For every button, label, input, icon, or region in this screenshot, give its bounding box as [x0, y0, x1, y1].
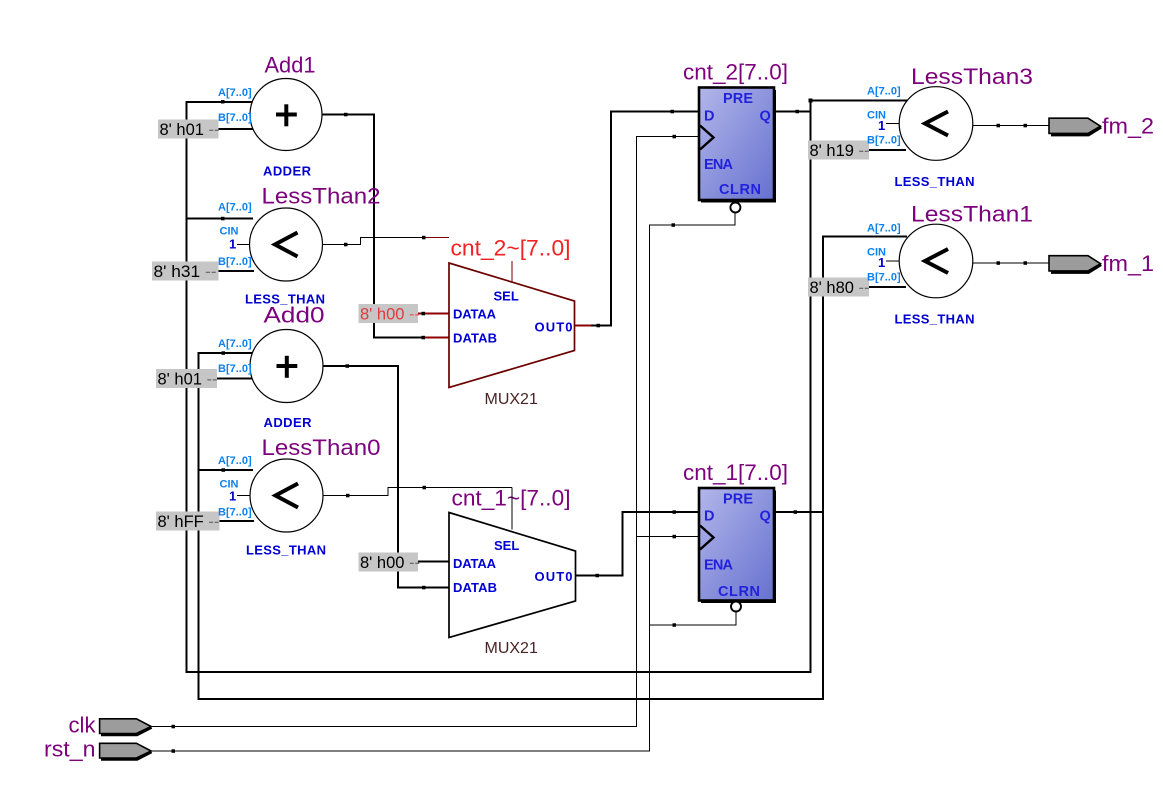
junction tick cnt_1 Q: [794, 510, 798, 514]
wire LessThan2 output maroon segment entering SEL label: [425, 237, 452, 239]
port label B[7..0] of Add1: [218, 112, 252, 124]
svg-text:DATAA: DATAA: [453, 307, 497, 322]
svg-text:LESS_THAN: LESS_THAN: [895, 174, 975, 189]
wire net cnt_1 Q feedback loop to Add0.A and LessThan1.A: [199, 237, 908, 700]
wire clk net to both flipflop clock pins: [151, 137, 699, 727]
junction tick DATAB1 stub: [422, 586, 426, 590]
wire Add0 B input from constant 8'h01: [217, 378, 254, 380]
svg-text:1: 1: [878, 255, 885, 270]
junction tick clk wire: [172, 725, 176, 729]
svg-text:D: D: [704, 508, 714, 524]
junction tick OUT0 cnt_2~: [597, 324, 601, 328]
type label MUX21 of mux cnt_1~: [485, 640, 538, 657]
comparator LessThan0 circle: [250, 459, 323, 532]
input pin clk: [100, 719, 152, 735]
mux cnt_2~ trapezoid: [449, 263, 575, 388]
wire LessThan2 A input branch: [187, 218, 254, 220]
wire LessThan0 output to MUX cnt_1~ SEL: [323, 488, 512, 496]
svg-text:ADDER: ADDER: [264, 415, 313, 430]
wire LessThan1 CIN constant 1 stub: [886, 260, 901, 262]
svg-text:LessThan2: LessThan2: [262, 184, 381, 209]
port label B[7..0] of LessThan0: [218, 507, 252, 519]
junction tick fm_1 wire b: [1024, 261, 1028, 265]
svg-text:8' h19 --: 8' h19 --: [810, 142, 870, 160]
junction tick cnt_2 clock: [673, 135, 677, 139]
junction tick cnt_1 clock: [673, 535, 677, 539]
junction tick SEL2 wire: [422, 236, 426, 240]
junction tick cnt_2 D: [671, 110, 675, 114]
svg-text:ADDER: ADDER: [263, 164, 312, 179]
instance title Add0: [264, 303, 325, 328]
junction tick LessThan0 out: [346, 494, 350, 498]
flipflop cnt_1 CLRN bubble: [731, 602, 741, 612]
port label CIN of LessThan2: [220, 226, 239, 238]
wire Add1 output to MUX cnt_2~ DATAB: [322, 115, 426, 338]
flipflop cnt_2 CLRN bubble: [730, 203, 740, 213]
pin name rst_n: [44, 737, 96, 762]
port label DATAB of mux cnt_2~: [453, 331, 497, 346]
instance title LessThan0: [262, 435, 381, 460]
constant label 8'h00 for MUX cnt_1~ DATAA: [359, 553, 421, 573]
junction tick fm_2 wire a: [997, 124, 1001, 128]
svg-text:cnt_2[7..0]: cnt_2[7..0]: [683, 60, 788, 85]
port label A[7..0] of Add1: [218, 87, 252, 99]
junction tick Add1 A: [221, 100, 225, 104]
svg-text:LessThan1: LessThan1: [911, 202, 1033, 227]
port label LESS_THAN of LessThan2: [245, 292, 325, 307]
svg-text:B[7..0]: B[7..0]: [867, 272, 901, 284]
wire LessThan2 B input from constant 8'h31: [218, 270, 254, 272]
output pin fm_2: [1049, 118, 1101, 135]
svg-text:ENA: ENA: [704, 557, 734, 573]
junction tick cnt_1 D: [673, 510, 677, 514]
svg-text:clk: clk: [69, 713, 97, 738]
wire LessThan0 B input from constant 8'hFF: [219, 520, 254, 522]
flipflop cnt_1 body: [699, 488, 776, 603]
junction tick LessThan2 out: [344, 243, 348, 247]
comparator LessThan3 circle: [899, 87, 973, 161]
comparator LessThan2 circle: [250, 208, 323, 281]
instance title Add1: [265, 52, 316, 77]
svg-text:DATAA: DATAA: [453, 556, 497, 571]
wire MUX cnt_2~ OUT0 to cnt_2 D input: [591, 112, 699, 326]
svg-text:B[7..0]: B[7..0]: [867, 135, 901, 147]
pin name fm_1: [1102, 251, 1154, 276]
wire Add0 output to MUX cnt_1~ DATAB: [323, 366, 450, 588]
wire red stub MUX cnt_2~ OUT0: [575, 325, 592, 327]
type label MUX21 of mux cnt_2~: [485, 391, 538, 408]
svg-text:A[7..0]: A[7..0]: [218, 338, 252, 350]
port label B[7..0] of LessThan3: [867, 135, 901, 147]
junction tick OUT0 cnt_1~: [596, 574, 600, 578]
junction tick rst_n wire: [172, 749, 176, 753]
svg-text:A[7..0]: A[7..0]: [218, 455, 252, 467]
wire red stub MUX cnt_2~ DATAA: [418, 313, 449, 315]
junction tick Add0 A: [222, 351, 226, 355]
port label A[7..0] of LessThan1: [867, 223, 901, 235]
adder Add0 circle: [250, 330, 323, 403]
junction tick cnt_2 Q: [796, 110, 800, 114]
junction tick cnt_2 clrn: [672, 223, 676, 227]
wire MUX cnt_1~ OUT0 to cnt_1 D input: [575, 512, 699, 576]
svg-text:rst_n: rst_n: [44, 737, 96, 762]
svg-text:D: D: [704, 108, 714, 124]
port label LESS_THAN of LessThan3: [895, 174, 975, 189]
port label OUT0 of mux cnt_1~: [535, 569, 573, 584]
svg-text:OUT0: OUT0: [535, 320, 573, 335]
port label B[7..0] of LessThan1: [867, 272, 901, 284]
junction tick SEL1 wire: [423, 486, 427, 490]
junction tick LessThan2 A: [221, 217, 225, 221]
instance title LessThan2: [262, 184, 381, 209]
port label B[7..0] of LessThan2: [218, 256, 252, 268]
wire LessThan3 B input from constant 8'h19: [868, 149, 906, 151]
wire LessThan1 output to fm_1 pin: [971, 262, 1049, 264]
wire black stub MUX cnt_1~ DATAA: [418, 561, 449, 563]
port label A[7..0] of LessThan0: [218, 455, 252, 467]
constant label 8'hFF for LessThan0 B: [156, 512, 220, 532]
svg-text:fm_2: fm_2: [1102, 114, 1154, 139]
junction tick fm_1 wire a: [997, 261, 1001, 265]
mux cnt_1~ trapezoid: [449, 513, 576, 638]
constant label 8'h01 for Add1 B: [158, 120, 220, 140]
junction tick LessThan3 A corner: [809, 99, 813, 103]
flipflop cnt_2 body: [699, 88, 776, 203]
svg-text:CLRN: CLRN: [719, 182, 761, 198]
port label SEL of mux cnt_1~: [494, 538, 519, 553]
svg-text:DATAB: DATAB: [453, 331, 497, 346]
svg-text:LESS_THAN: LESS_THAN: [895, 312, 975, 327]
instance title cnt_1~[7..0]: [452, 486, 571, 511]
svg-text:MUX21: MUX21: [485, 640, 538, 657]
pin name clk: [69, 713, 97, 738]
wire MUX cnt_1~ SEL vertical drawn over title: [511, 488, 513, 530]
port label DATAB of mux cnt_1~: [453, 580, 497, 595]
svg-text:8' h01 --: 8' h01 --: [160, 121, 220, 139]
junction tick Add1 out: [344, 113, 348, 117]
svg-text:8' h80 --: 8' h80 --: [810, 279, 870, 297]
port label ADDER of Add0: [264, 415, 313, 430]
svg-text:cnt_1~[7..0]: cnt_1~[7..0]: [452, 486, 571, 511]
wire LessThan0 A input branch: [199, 469, 254, 471]
svg-text:LESS_THAN: LESS_THAN: [245, 292, 325, 307]
wire red stub MUX cnt_2~ DATAB: [425, 337, 449, 339]
wire LessThan2 output toward MUX cnt_2~ SEL: [323, 238, 426, 245]
svg-text:Q: Q: [760, 108, 771, 124]
port label B[7..0] of Add0: [218, 363, 252, 375]
svg-text:8' h31 --: 8' h31 --: [154, 263, 217, 281]
wire LessThan3 CIN constant 1 stub: [886, 123, 901, 125]
svg-text:LessThan3: LessThan3: [911, 64, 1033, 89]
svg-text:cnt_1[7..0]: cnt_1[7..0]: [683, 460, 788, 485]
svg-text:1: 1: [229, 489, 236, 504]
svg-text:OUT0: OUT0: [535, 569, 573, 584]
wire cnt_1 Q output stub: [774, 511, 824, 513]
port label CIN of LessThan0: [220, 479, 239, 491]
svg-text:DATAB: DATAB: [453, 580, 497, 595]
wire cnt_2 Q output stub: [774, 111, 812, 113]
port label OUT0 of mux cnt_2~: [535, 320, 573, 335]
svg-text:8' h00 --: 8' h00 --: [360, 554, 420, 572]
port label CIN value 1 of LessThan2: [229, 237, 236, 252]
port label SEL of mux cnt_2~: [494, 289, 519, 304]
wire LessThan3 output to fm_2 pin: [971, 125, 1049, 127]
svg-text:LESS_THAN: LESS_THAN: [246, 543, 326, 558]
wire rst_n net to cnt_2 CLRN: [151, 213, 735, 752]
svg-text:8' hFF --: 8' hFF --: [158, 513, 220, 531]
constant label 8'h80 for LessThan1 B: [808, 278, 870, 298]
port label A[7..0] of LessThan3: [867, 86, 901, 98]
port label LESS_THAN of LessThan1: [895, 312, 975, 327]
instance title LessThan3: [911, 64, 1033, 89]
adder Add1 circle: [250, 79, 322, 151]
junction tick Add0 out: [346, 364, 350, 368]
svg-text:SEL: SEL: [494, 538, 519, 553]
wire net cnt_2 Q feedback loop to Add1.A and LessThan2.A: [187, 101, 908, 673]
svg-text:cnt_2~[7..0]: cnt_2~[7..0]: [451, 236, 571, 261]
svg-text:B[7..0]: B[7..0]: [218, 363, 252, 375]
constant label 8'h31 for LessThan2 B: [152, 262, 219, 282]
svg-text:A[7..0]: A[7..0]: [218, 202, 252, 214]
wire rst_n branch to cnt_1 CLRN: [650, 611, 737, 625]
svg-text:LessThan0: LessThan0: [262, 435, 381, 460]
port label ADDER of Add1: [263, 164, 312, 179]
junction tick fm_2 wire b: [1024, 124, 1028, 128]
instance title cnt_2[7..0]: [683, 60, 788, 85]
junction tick DATAA2 stub: [422, 312, 426, 316]
svg-text:B[7..0]: B[7..0]: [218, 507, 252, 519]
comparator LessThan1 circle: [899, 224, 973, 298]
svg-text:PRE: PRE: [723, 91, 753, 107]
port label CIN value 1 of LessThan1: [878, 255, 885, 270]
port label LESS_THAN of LessThan0: [246, 543, 326, 558]
wire Add1 B input from constant 8'h01: [218, 128, 254, 130]
port label A[7..0] of LessThan2: [218, 202, 252, 214]
svg-text:SEL: SEL: [494, 289, 519, 304]
port label CIN value 1 of LessThan3: [878, 118, 885, 133]
constant label 8'h19 for LessThan3 B: [808, 141, 870, 161]
wire LessThan2 CIN constant 1 stub: [237, 244, 251, 246]
output pin fm_1: [1049, 256, 1101, 273]
svg-text:B[7..0]: B[7..0]: [218, 256, 252, 268]
svg-text:PRE: PRE: [723, 492, 753, 508]
svg-text:Add1: Add1: [265, 52, 316, 77]
constant label 8'h00 red for MUX cnt_2~ DATAA: [359, 304, 421, 324]
instance title LessThan1: [911, 202, 1033, 227]
svg-text:B[7..0]: B[7..0]: [218, 112, 252, 124]
junction tick cnt_1 clrn: [673, 623, 677, 627]
svg-text:8' h00 --: 8' h00 --: [360, 306, 420, 324]
svg-text:A[7..0]: A[7..0]: [867, 86, 901, 98]
svg-text:1: 1: [229, 237, 236, 252]
wire LessThan1 B input from constant 8'h80: [868, 286, 906, 288]
svg-text:fm_1: fm_1: [1102, 251, 1154, 276]
svg-text:1: 1: [878, 118, 885, 133]
port label CIN value 1 of LessThan0: [229, 489, 236, 504]
constant label 8'h01 for Add0 B: [156, 369, 218, 389]
instance title cnt_2~[7..0] red with opaque box: [449, 236, 573, 261]
svg-text:A[7..0]: A[7..0]: [867, 223, 901, 235]
pin name fm_2: [1102, 114, 1154, 139]
junction tick LessThan0 A: [222, 468, 226, 472]
input pin rst_n: [100, 743, 152, 759]
wire red stub MUX cnt_2~ SEL vertical: [511, 261, 513, 282]
junction tick DATAB2 stub: [422, 336, 426, 340]
svg-text:A[7..0]: A[7..0]: [218, 87, 252, 99]
port label CIN of LessThan1: [867, 247, 886, 259]
port label CIN of LessThan3: [867, 110, 886, 122]
svg-text:8' h01 --: 8' h01 --: [158, 371, 218, 389]
wire clk branch to cnt_1 clock: [637, 536, 699, 538]
svg-text:MUX21: MUX21: [485, 391, 538, 408]
instance title cnt_1[7..0]: [683, 460, 788, 485]
svg-text:Q: Q: [760, 508, 771, 524]
port label DATAA of mux cnt_1~: [453, 556, 497, 571]
svg-text:ENA: ENA: [704, 157, 734, 173]
port label DATAA of mux cnt_2~: [453, 307, 497, 322]
wire LessThan0 CIN constant 1 stub: [237, 495, 251, 497]
svg-text:CLRN: CLRN: [718, 584, 760, 600]
port label A[7..0] of Add0: [218, 338, 252, 350]
